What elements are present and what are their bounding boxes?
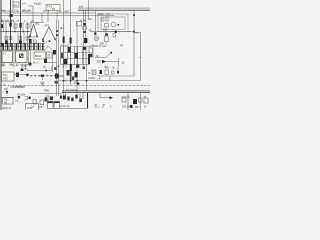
component dark C21 (53, 50, 56, 55)
dark cells (68, 47, 71, 53)
vertical wire x103 (105, 32, 107, 37)
svg-text:M: M (69, 61, 71, 64)
shield box outer (98, 14, 128, 32)
mid bottom line y95 (30, 92, 62, 94)
svg-text:L 1: L 1 (96, 105, 100, 109)
bottom-left arrow down (6, 88, 8, 95)
svg-text:4R7: 4R7 (135, 106, 140, 109)
box bottom mid-left (26, 104, 39, 111)
wire y70.5 with hop (20, 69, 52, 71)
svg-text:4.7k: 4.7k (80, 19, 86, 23)
box PSU (3, 98, 14, 105)
vertical wire x42 top (41, 13, 43, 22)
svg-text:PLL: PLL (3, 73, 8, 77)
svg-text:a 4: a 4 (22, 3, 26, 6)
svg-text:500: 500 (97, 60, 102, 64)
cap C14 (94, 32, 96, 35)
net line B x140.5 (134, 32, 141, 34)
bottom right comps (122, 98, 126, 102)
net line A x134 (133, 10, 135, 76)
component marks in shield (105, 24, 109, 28)
long rail y85.5 (0, 85, 150, 87)
arrowhead right (110, 96, 114, 99)
resistor in shield (102, 18, 105, 21)
dashed wire y75.5 (26, 75, 56, 77)
svg-text:SB: SB (4, 102, 8, 104)
bus band top (gray double line) (78, 8, 150, 10)
fuse lead dark (18, 96, 20, 98)
comp marks x63/x70 dark segs (63, 37, 65, 44)
svg-text:P50: P50 (44, 88, 49, 92)
wire y62.7 (47, 62, 57, 64)
brackets right of text (98, 76, 101, 80)
wire to arrow (14, 74, 29, 76)
arrow up on A (133, 13, 135, 16)
wires to junction (21, 64, 23, 70)
twin boxes with dark caps (48, 102, 54, 109)
vertical wire x77 (76, 22, 78, 85)
wire rail y31.5 right (90, 31, 134, 33)
drop from dash (42, 76, 44, 80)
svg-text:1k 4: 1k 4 (12, 65, 17, 68)
svg-text:F1 2A: F1 2A (18, 93, 26, 97)
svg-text:a4 b2 c6: a4 b2 c6 (60, 104, 71, 108)
svg-text:F R4 C2 b: F R4 C2 b (1, 9, 14, 13)
vertical wire x15 (14, 22, 16, 32)
vertical wire x23 (22, 22, 24, 32)
box R31 (89, 48, 93, 53)
svg-text:TO PANEL: TO PANEL (66, 88, 79, 92)
meter arrow M1 (30, 24, 38, 37)
tick on B (139, 57, 141, 59)
svg-text:100k1: 100k1 (88, 76, 96, 80)
bottom center cluster (60, 96, 62, 99)
small comps row (33, 100, 36, 105)
corner marks bottom middle (95, 105, 97, 109)
svg-text:2W: 2W (1, 64, 5, 68)
vertical wire x13 (12, 0, 14, 13)
svg-text:4k7: 4k7 (65, 10, 70, 14)
shield box inner (101, 17, 125, 30)
matrix block grid (61, 47, 90, 65)
vertical wire x95.5 (95, 10, 97, 31)
wire x52.5 (52, 54, 54, 72)
wire left border bus (0, 0, 2, 110)
wire rail y38 center (28, 36, 39, 38)
svg-text:4k 1: 4k 1 (33, 61, 38, 65)
svg-text:1N4148 2x: 1N4148 2x (13, 86, 26, 89)
svg-text:C8: C8 (39, 105, 43, 109)
svg-text:470: 470 (45, 24, 50, 28)
vertical wire x140.5 bottom (140, 93, 142, 110)
junction dots rail y31.5 (5, 31, 6, 32)
junction dot A (133, 31, 135, 33)
pot line with wiper (95, 53, 111, 58)
capacitor C23 (54, 67, 56, 70)
meter arrow M2 (43, 27, 56, 40)
vertical wire pair x56.5/x58.5 (56, 20, 58, 96)
svg-text:U: U (3, 84, 5, 87)
wire B corner left y80.5 (58, 80, 141, 82)
transistor Q1 circle (111, 22, 116, 27)
diode D5 (102, 60, 106, 64)
component on rail (10, 14, 13, 17)
top-left small box (13, 2, 19, 7)
right mid small comps (115, 31, 117, 33)
bus band bottom (62, 90, 150, 92)
box B101 (34, 52, 46, 59)
svg-text:100k: 100k (97, 12, 104, 16)
transistor Q2 (83, 26, 87, 30)
vertical wire x108 (107, 16, 109, 23)
center dark cluster (70, 64, 72, 71)
vertical wire x10.5 thick (10, 0, 12, 47)
wire top rail y13 (0, 12, 95, 14)
wire x30.5 down (30, 50, 32, 64)
svg-text:MAIN 2x: MAIN 2x (2, 107, 12, 110)
svg-text:AFC: AFC (3, 77, 8, 81)
dark blob x55-59 (55, 74, 59, 79)
box B102 (47, 52, 53, 58)
svg-text:4k7: 4k7 (60, 26, 65, 30)
junction blob (21, 69, 23, 71)
capacitor C22 (44, 59, 47, 64)
svg-text:115V: 115V (27, 107, 33, 110)
svg-text:TP: TP (4, 89, 8, 92)
relay K2 box (16, 51, 28, 63)
box IC2 (2, 72, 15, 81)
wire y22.5 short (30, 22, 44, 24)
svg-text:10k 2A 1k: 10k 2A 1k (122, 105, 134, 109)
svg-text:E 4 R7 4k: E 4 R7 4k (17, 9, 29, 13)
vertical wire x70.5 (70, 0, 72, 85)
extra label smudge rows (1, 9, 72, 89)
svg-text:10k: 10k (59, 74, 64, 78)
vertical wire x20.5 (20, 0, 22, 47)
symbol in K2 (20, 54, 24, 58)
vertical wire x31 (30, 22, 32, 32)
svg-text:2x4: 2x4 (79, 5, 84, 9)
vertical wire x128 bottom (127, 93, 129, 110)
svg-text:C9 2: C9 2 (22, 65, 28, 68)
svg-text:10 100 47 1k: 10 100 47 1k (90, 44, 106, 48)
svg-text:AC: AC (15, 99, 19, 103)
left col comp marks (9, 23, 11, 27)
vertical wire x27.5 (27, 22, 29, 47)
top box F4 (46, 5, 60, 11)
wire rail y15.5 (0, 15, 114, 17)
arrow tick right of A (135, 32, 138, 34)
tick near x128,y31 (128, 31, 131, 33)
relay K1 box (2, 51, 13, 63)
svg-text:ad l.b4 c2 e: ad l.b4 c2 e (1, 19, 15, 23)
svg-text:10k: 10k (103, 28, 108, 32)
svg-text:C7 2: C7 2 (43, 9, 50, 13)
wire A corner left y76 (101, 75, 134, 77)
svg-text:a b c d: a b c d (61, 44, 69, 47)
svg-text:R: R (89, 72, 91, 75)
connector comb row1 (0, 43, 45, 50)
wire y97.5 left (0, 97, 14, 99)
wire rail y31.5 left (0, 31, 31, 33)
svg-text:47: 47 (120, 44, 124, 48)
svg-text:c2: c2 (17, 19, 20, 23)
dark comp (90, 54, 93, 57)
svg-text:B101: B101 (35, 54, 42, 58)
vertical wire x6 (5, 22, 7, 47)
vertical wire x85.5 (85, 10, 87, 44)
verticals under band (63, 85, 65, 96)
extra verticals left block (17, 32, 19, 48)
svg-text:1k: 1k (59, 10, 63, 14)
vertical wire x83.5 (83, 10, 85, 66)
vertical wire x57 top (56, 10, 58, 20)
wire +24V drop x33 (32, 6, 34, 22)
comp at 76-82,21-26 (77, 22, 82, 27)
svg-text:o2 R 10: o2 R 10 (121, 96, 130, 99)
label row y63-67 (1, 62, 29, 66)
comp dark T3 (16, 73, 19, 78)
svg-text:W V: W V (62, 66, 67, 69)
vertical wire x63.5 (63, 0, 65, 85)
vertical wire x106 (105, 16, 107, 23)
svg-text:4.7: 4.7 (106, 12, 111, 16)
right mid comps row y70-74 (92, 70, 96, 75)
vertical wire x48 (47, 10, 49, 22)
svg-text:+24V: +24V (34, 2, 42, 6)
svg-text:10k: 10k (40, 81, 45, 85)
text smudges (0, 2, 147, 110)
vertical wire x100 corner to arrow (100, 93, 112, 98)
vertical wire x88.5 top (88, 0, 90, 20)
wire x14 between relays (13, 50, 15, 64)
diag wires (44, 46, 48, 51)
vertical wire x93 (92, 44, 94, 58)
svg-text:3k1: 3k1 (35, 22, 40, 26)
